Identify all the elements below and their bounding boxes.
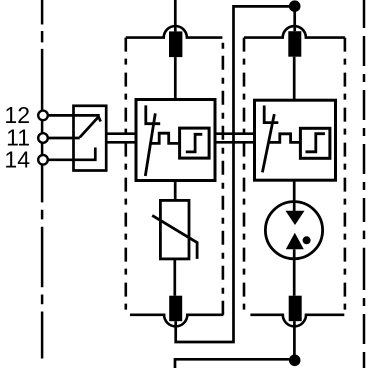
- svg-text:14: 14: [4, 146, 30, 172]
